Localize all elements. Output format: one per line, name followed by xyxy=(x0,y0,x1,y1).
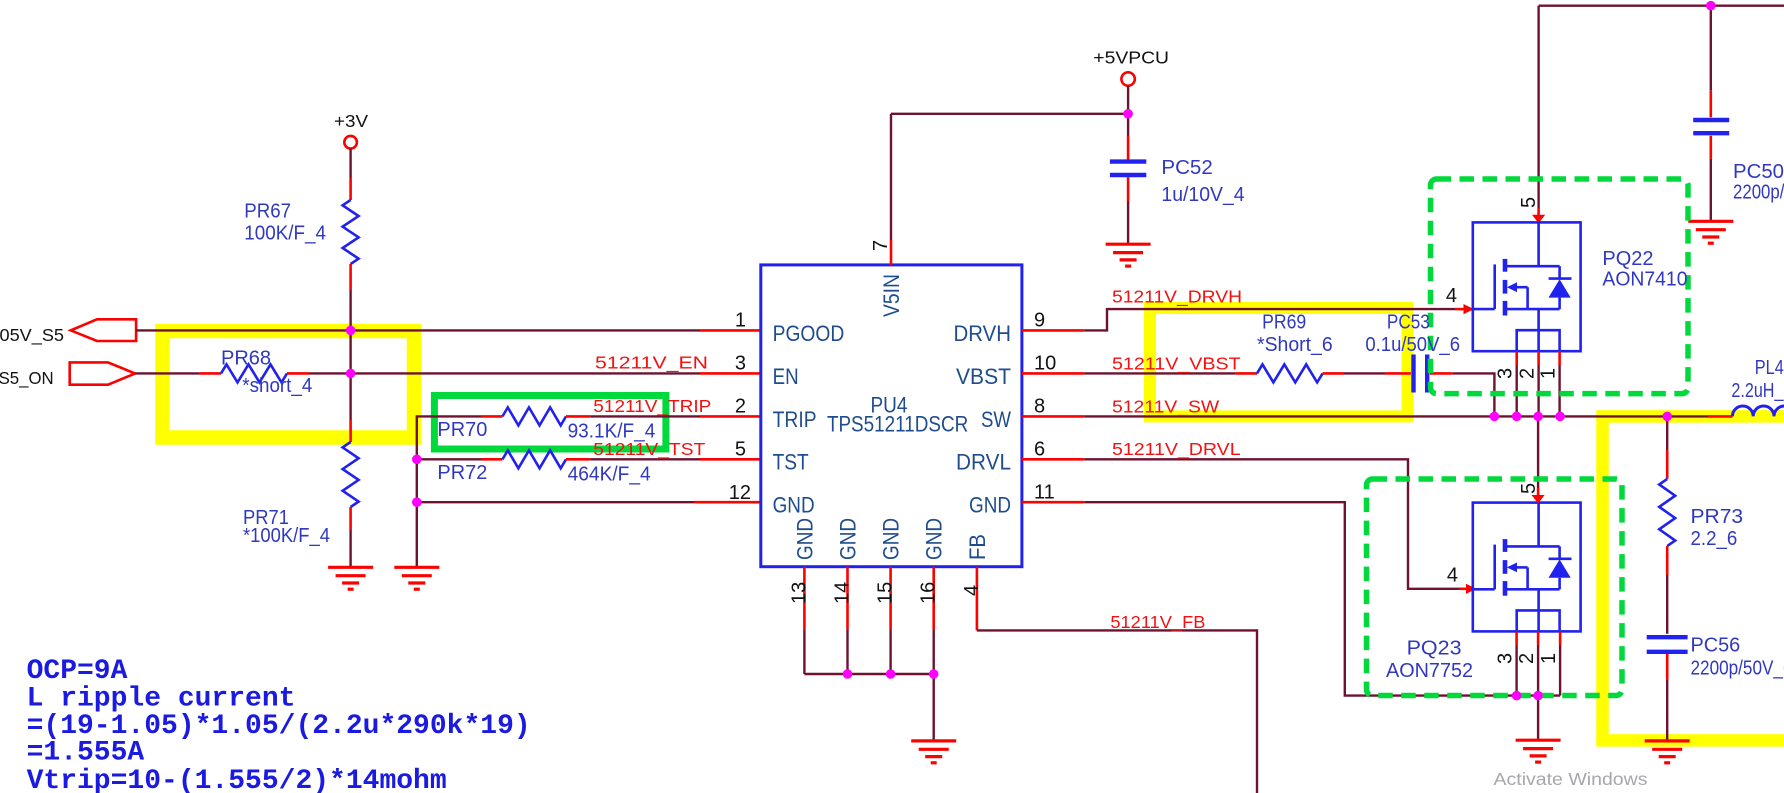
svg-text:1: 1 xyxy=(735,309,746,331)
wire PC52 to ground xyxy=(1127,177,1130,201)
wire PR70 to TRIP pin 2 xyxy=(566,415,590,418)
ground below PR71 xyxy=(328,567,373,589)
svg-text:2: 2 xyxy=(1516,653,1538,664)
wire 05V_S5 to PGOOD pin 1 xyxy=(136,329,700,331)
junction GND bus 15 xyxy=(886,669,896,679)
highlight yellow box around PR68 / EN-PGOOD area xyxy=(163,331,415,438)
svg-text:PR68: PR68 xyxy=(221,348,271,370)
wire VBST pin 10 to PR69 xyxy=(1022,372,1084,375)
transistor Q2 PQ23 AON7752 xyxy=(1473,503,1581,632)
svg-text:PQ23: PQ23 xyxy=(1407,637,1462,659)
svg-text:2200p/50V_6: 2200p/50V_6 xyxy=(1733,182,1784,204)
svg-text:5: 5 xyxy=(1518,197,1540,208)
resistor PR71 xyxy=(343,442,359,507)
wire TRIP net vertical to ground xyxy=(417,416,481,567)
wire PR69 to PC53 xyxy=(1323,372,1344,375)
svg-text:16: 16 xyxy=(918,582,940,604)
node C (+5VPCU junction) xyxy=(1123,109,1133,119)
ground below PC50 xyxy=(1688,221,1733,243)
svg-text:51211V_TST: 51211V_TST xyxy=(593,439,705,460)
junction SW/PQ22 pin2 xyxy=(1533,412,1543,422)
resistor PR70 xyxy=(503,407,566,425)
wire node C to PC52 xyxy=(1127,114,1129,136)
svg-text:PR73: PR73 xyxy=(1691,506,1744,528)
wire PC53 to SW node xyxy=(1430,372,1453,375)
svg-text:GND: GND xyxy=(922,518,947,560)
junction PR72/TST xyxy=(412,455,422,465)
svg-text:+5VPCU: +5VPCU xyxy=(1093,47,1169,67)
green dashed highlight around PQ23 xyxy=(1367,479,1623,696)
wire PR68 to EN pin 3 xyxy=(287,372,309,375)
svg-text:PR72: PR72 xyxy=(437,462,487,484)
svg-text:2.2_6: 2.2_6 xyxy=(1691,528,1738,550)
capacitor PC56 xyxy=(1647,635,1688,639)
svg-text:Activate Windows: Activate Windows xyxy=(1494,769,1648,789)
capacitor PC53 xyxy=(1411,355,1415,393)
wire PQ23 source to ground xyxy=(1537,696,1539,741)
svg-text:3: 3 xyxy=(1495,653,1517,664)
svg-text:L ripple current: L ripple current xyxy=(27,683,296,714)
wire top rail to PQ22 drain xyxy=(1537,6,1539,208)
svg-text:51211V_FB: 51211V_FB xyxy=(1110,612,1205,633)
wire PQ23 pins 3 2 1 xyxy=(1515,632,1518,646)
svg-text:13: 13 xyxy=(788,582,810,604)
svg-text:V5IN: V5IN xyxy=(879,274,904,317)
svg-text:12: 12 xyxy=(729,482,751,504)
svg-text:51211V_TRIP: 51211V_TRIP xyxy=(593,396,711,417)
wire GND pin 12 xyxy=(417,501,694,503)
svg-text:VBST: VBST xyxy=(956,364,1011,389)
svg-text:PGOOD: PGOOD xyxy=(773,321,845,346)
capacitor PC50 xyxy=(1693,118,1729,122)
off-page connector 05V_S5 xyxy=(71,319,136,341)
junction SW/PR73 xyxy=(1662,412,1672,422)
svg-text:5: 5 xyxy=(1518,483,1540,494)
svg-text:SW: SW xyxy=(981,407,1012,432)
wire PR72 left xyxy=(417,458,481,460)
svg-text:8: 8 xyxy=(1034,396,1045,418)
junction SW/PC53 xyxy=(1490,412,1500,422)
highlight green box around PR70 xyxy=(434,396,666,450)
junction PQ23 pin2/GND xyxy=(1533,691,1543,701)
wire V5IN pin 7 to +5VPCU xyxy=(891,113,1128,115)
wire +3V to PR67 xyxy=(349,149,351,179)
green dashed highlight around PQ22 xyxy=(1431,179,1689,394)
ground below IC xyxy=(911,741,956,763)
svg-text:7: 7 xyxy=(870,240,892,251)
wire PR71 to ground xyxy=(349,507,352,530)
wire DRVL pin 6 to PQ23 gate xyxy=(1022,458,1084,461)
wire FB pin 4 net xyxy=(976,567,979,631)
node B (EN junction) xyxy=(346,369,356,379)
svg-text:4: 4 xyxy=(1447,565,1458,587)
svg-text:Vtrip=10-(1.555/2)*14mohm: Vtrip=10-(1.555/2)*14mohm xyxy=(27,766,447,793)
transistor Q1 PQ22 AON7410 xyxy=(1473,222,1581,351)
svg-text:2: 2 xyxy=(1517,368,1539,379)
svg-text:3: 3 xyxy=(1495,368,1517,379)
svg-text:DRVH: DRVH xyxy=(954,321,1012,346)
wire +5VPCU to node C xyxy=(1127,86,1129,114)
svg-text:*100K/F_4: *100K/F_4 xyxy=(243,525,330,547)
off-page connector S5_ON xyxy=(70,362,135,384)
junction SW/PQ22 pin1 xyxy=(1555,412,1565,422)
wire PC56 to ground xyxy=(1666,654,1669,680)
inductor PL4 xyxy=(1732,406,1784,416)
svg-text:2.2uH_6: 2.2uH_6 xyxy=(1731,380,1784,402)
op-amp U1 PU4 TPS51211DSCR body xyxy=(761,265,1022,567)
capacitor PC52 xyxy=(1110,159,1146,163)
wire node D to PC50 xyxy=(1710,6,1712,91)
svg-text:FB: FB xyxy=(965,534,990,560)
wire node B to PR71 xyxy=(349,374,351,421)
svg-text:51211V_EN: 51211V_EN xyxy=(595,353,708,374)
svg-text:1: 1 xyxy=(1538,653,1560,664)
resistor PR69 xyxy=(1257,364,1323,382)
junction GND12 xyxy=(412,497,422,507)
svg-text:S5_ON: S5_ON xyxy=(0,368,54,389)
wire SW node to PR73 xyxy=(1666,416,1668,450)
svg-text:GND: GND xyxy=(969,493,1011,518)
svg-text:15: 15 xyxy=(875,582,897,604)
junction GND bus 16 xyxy=(929,669,939,679)
svg-text:+3V: +3V xyxy=(334,111,368,131)
svg-text:GND: GND xyxy=(879,518,904,560)
wire GND pin 11 to PQ23 source xyxy=(1022,501,1084,504)
svg-text:GND: GND xyxy=(773,493,815,518)
svg-text:DRVL: DRVL xyxy=(956,450,1011,475)
wire PR67 to node A xyxy=(349,264,352,290)
resistor PR73 xyxy=(1659,479,1675,546)
svg-text:*short_4: *short_4 xyxy=(242,375,312,397)
power terminal +3V xyxy=(344,136,357,149)
wire GND bus below IC xyxy=(803,630,805,674)
svg-text:GND: GND xyxy=(792,518,817,560)
wire top rail xyxy=(1539,4,1784,6)
svg-text:PR67: PR67 xyxy=(244,200,291,222)
svg-text:PC56: PC56 xyxy=(1691,634,1741,656)
svg-text:PQ22: PQ22 xyxy=(1602,248,1653,270)
svg-text:14: 14 xyxy=(832,582,854,604)
svg-text:PC50: PC50 xyxy=(1733,161,1784,183)
svg-text:PC53: PC53 xyxy=(1387,311,1430,333)
resistor PR68 xyxy=(221,364,287,382)
ground below PC52 xyxy=(1106,244,1151,266)
svg-text:*Short_6: *Short_6 xyxy=(1257,334,1333,356)
svg-text:51211V_VBST: 51211V_VBST xyxy=(1112,354,1241,375)
junction GND bus 14 xyxy=(843,669,853,679)
svg-text:0.1u/50V_6: 0.1u/50V_6 xyxy=(1365,334,1460,356)
svg-text:AON7410: AON7410 xyxy=(1602,269,1687,291)
wire GND pins 13-16 stubs xyxy=(803,567,806,630)
svg-text:EN: EN xyxy=(773,364,799,389)
svg-text:PR70: PR70 xyxy=(437,419,487,441)
svg-text:10: 10 xyxy=(1034,353,1056,375)
svg-text:05V_S5: 05V_S5 xyxy=(0,325,64,346)
svg-text:PC52: PC52 xyxy=(1161,157,1212,179)
power terminal +5VPCU xyxy=(1121,72,1134,85)
junction PQ23 pin3/GND xyxy=(1512,691,1522,701)
svg-text:51211V_DRVH: 51211V_DRVH xyxy=(1112,287,1242,308)
wire S5_ON to PR68 xyxy=(135,372,199,374)
svg-text:100K/F_4: 100K/F_4 xyxy=(244,222,326,244)
svg-text:GND: GND xyxy=(836,518,861,560)
highlight yellow box around PR69 / PC53 (DRVH-VBST-SW area) xyxy=(1150,308,1408,416)
svg-text:PR69: PR69 xyxy=(1262,311,1306,333)
wire node A to node B xyxy=(349,331,351,374)
svg-text:1u/10V_4: 1u/10V_4 xyxy=(1161,184,1244,206)
svg-text:TRIP: TRIP xyxy=(773,407,817,432)
wire PQ22 pins 3 2 1 to SW xyxy=(1515,351,1518,365)
highlight yellow box around SW output / PR73 / PC56 area xyxy=(1603,416,1784,740)
svg-text:2200p/50V_6: 2200p/50V_6 xyxy=(1691,658,1784,680)
svg-text:4: 4 xyxy=(1446,285,1457,307)
svg-text:TST: TST xyxy=(773,450,809,475)
resistor PR67 xyxy=(343,200,359,264)
svg-text:6: 6 xyxy=(1034,439,1045,461)
svg-text:464K/F_4: 464K/F_4 xyxy=(568,464,651,486)
svg-text:AON7752: AON7752 xyxy=(1386,660,1473,682)
svg-text:TPS51211DSCR: TPS51211DSCR xyxy=(827,412,968,437)
svg-text:2: 2 xyxy=(735,395,746,417)
junction SW/PQ22 pin3 xyxy=(1512,412,1522,422)
svg-text:PL4: PL4 xyxy=(1755,357,1784,379)
node A (+3V/PGOOD junction) xyxy=(346,326,356,336)
wire DRVH pin 9 to PQ22 gate xyxy=(1022,329,1084,332)
svg-text:9: 9 xyxy=(1034,310,1045,332)
node D top rail xyxy=(1706,1,1716,11)
wire PR72 to TST pin 5 xyxy=(566,458,590,461)
ground below PC56 xyxy=(1645,741,1690,763)
wire SW pin 8 rail xyxy=(1022,415,1084,418)
ground below PQ23 xyxy=(1516,740,1561,762)
resistor PR72 xyxy=(503,450,566,468)
svg-text:4: 4 xyxy=(961,585,983,596)
svg-text:51211V_DRVL: 51211V_DRVL xyxy=(1112,439,1241,460)
svg-text:3: 3 xyxy=(735,352,746,374)
svg-text:11: 11 xyxy=(1034,481,1055,503)
ground below TRIP divider xyxy=(394,567,439,589)
wire PR73 to PC56 xyxy=(1666,546,1669,575)
wire SW to PQ23 drain xyxy=(1537,416,1539,488)
svg-text:=1.555A: =1.555A xyxy=(27,738,145,769)
wire PC50 to ground xyxy=(1710,136,1713,159)
svg-text:1: 1 xyxy=(1538,368,1560,379)
svg-text:5: 5 xyxy=(735,438,746,460)
wire PR70 left stub xyxy=(481,415,503,418)
svg-text:51211V_SW: 51211V_SW xyxy=(1112,396,1220,417)
